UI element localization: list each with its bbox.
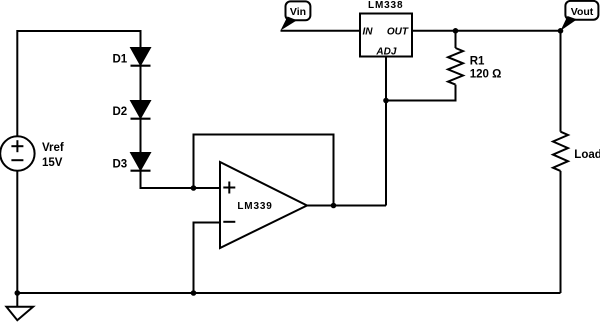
ground	[6, 293, 33, 320]
regulator LM338 box	[360, 14, 412, 57]
flag Vin	[281, 1, 311, 30]
svg-text:Vin: Vin	[290, 6, 306, 18]
svg-text:15V: 15V	[42, 157, 63, 169]
svg-text:D2: D2	[113, 106, 128, 118]
wire D3 to op-amp plus input	[141, 170, 221, 189]
node junction minus ground	[191, 290, 197, 296]
svg-text:IN: IN	[363, 26, 374, 37]
label R1 120 ohm	[470, 55, 502, 80]
svg-text:Vout: Vout	[571, 6, 594, 18]
svg-text:Load: Load	[574, 149, 600, 161]
diode D2	[131, 101, 151, 119]
wire R1 top	[455, 31, 457, 48]
wire op-amp output	[307, 205, 386, 207]
resistor Load	[553, 132, 568, 171]
svg-text:ADJ: ADJ	[375, 46, 396, 57]
node junction Vout	[558, 28, 564, 34]
wire minus input to ground rail	[194, 223, 221, 294]
svg-text:D1: D1	[113, 54, 128, 66]
node junction at ground	[14, 290, 20, 296]
wire diode chain	[140, 48, 142, 188]
voltage source Vref	[0, 136, 34, 170]
svg-text:120 Ω: 120 Ω	[470, 69, 502, 81]
wire bottom rail	[17, 292, 560, 294]
svg-text:LM339: LM339	[237, 201, 272, 212]
svg-text:Vref: Vref	[42, 142, 64, 154]
wire Vref bottom to ground rail	[16, 171, 18, 293]
wire Vref top to top rail	[17, 31, 140, 137]
node junction plus input	[191, 185, 197, 191]
node junction R1 out	[453, 28, 459, 34]
wire feedback loop	[194, 135, 334, 206]
svg-text:OUT: OUT	[387, 26, 409, 37]
svg-text:D3: D3	[113, 159, 128, 171]
wire R1 bottom to ADJ	[386, 85, 456, 101]
diode D1	[131, 48, 151, 66]
wire ADJ down to output	[385, 57, 387, 206]
diode D3	[131, 153, 151, 171]
node junction ADJ R1	[383, 98, 389, 104]
label Vref 15V	[42, 142, 64, 169]
wire OUT to Vout	[412, 30, 561, 32]
wire Vout to Load	[560, 31, 562, 132]
svg-text:LM338: LM338	[368, 0, 403, 11]
wire Vin to IN	[281, 30, 361, 32]
node junction output feedback	[331, 203, 337, 209]
wire Load bottom to rail	[560, 171, 562, 293]
flag Vout	[561, 1, 599, 31]
op-amp U1 LM339	[220, 162, 307, 248]
resistor R1	[448, 48, 463, 85]
svg-text:R1: R1	[470, 55, 485, 67]
